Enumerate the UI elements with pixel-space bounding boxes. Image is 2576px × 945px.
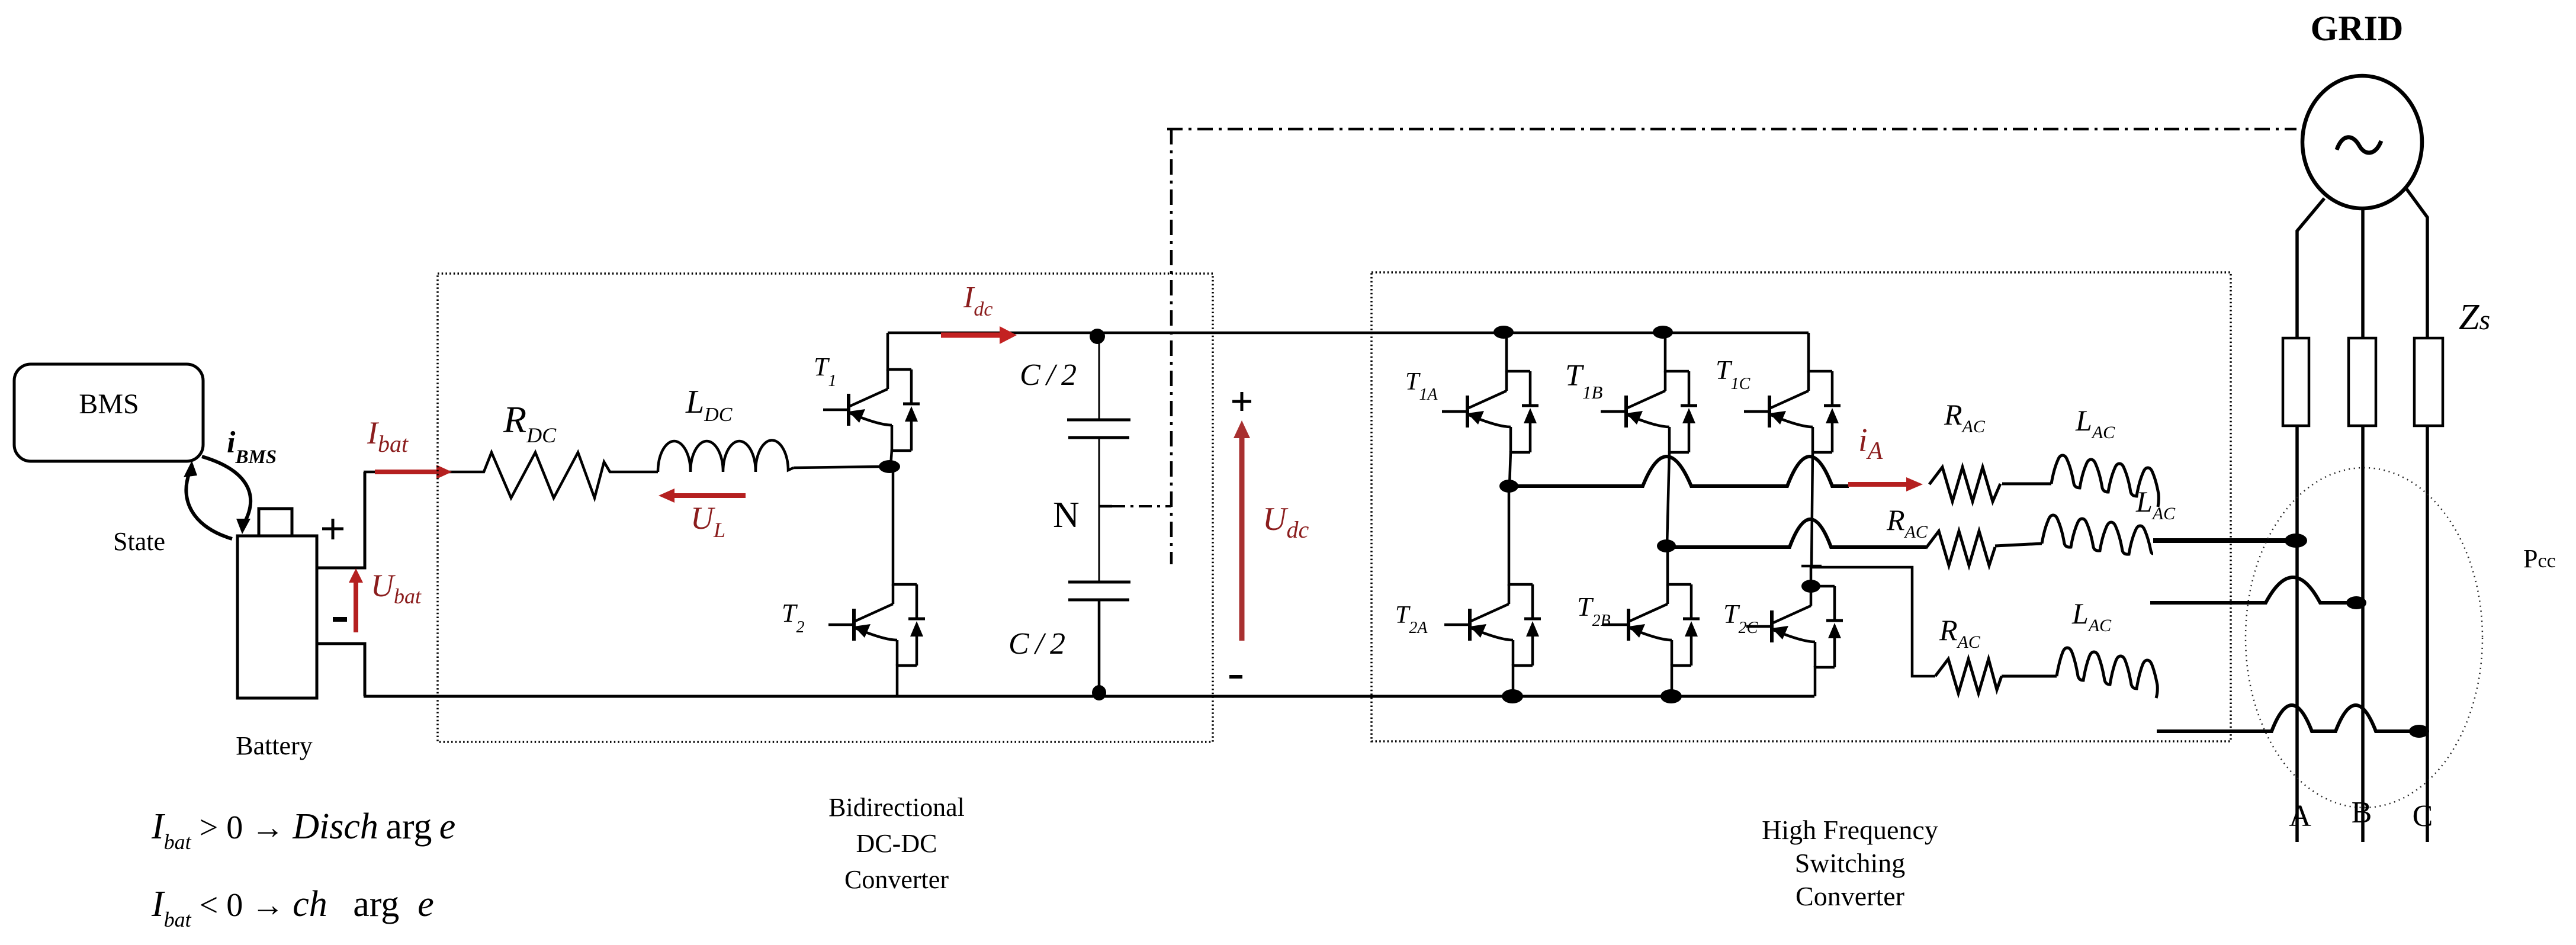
inductor L_AC phase C	[2057, 648, 2157, 698]
grid phase line C	[2406, 188, 2427, 842]
wire R_AC to L_AC phase B	[1995, 544, 2042, 546]
dashed box High Frequency Switching Converter	[1371, 272, 2231, 741]
label minus U_dc	[1229, 675, 1242, 679]
svg-text:LAC: LAC	[2075, 404, 2115, 442]
signal arc battery to BMS (State)	[184, 461, 232, 539]
impedance Zs box phase C	[2414, 338, 2443, 426]
label battery plus	[322, 519, 343, 539]
svg-text:C / 2: C / 2	[1008, 627, 1065, 661]
transistor T2B	[1603, 546, 1700, 696]
svg-text:Switching: Switching	[1795, 848, 1906, 878]
impedance Zs box phase A	[2283, 338, 2309, 426]
resistor R_AC phase C	[1935, 659, 2002, 693]
transistor T2	[828, 467, 925, 696]
svg-text:State: State	[113, 527, 165, 556]
transistor T1C	[1744, 333, 1841, 567]
node N tick	[1099, 505, 1112, 508]
transistor T1A	[1442, 334, 1538, 486]
capacitor C/2 upper	[1067, 336, 1130, 506]
svg-text:Idc: Idc	[963, 281, 993, 320]
transistor T2C	[1746, 566, 1843, 696]
signal arc BMS to battery (i_BMS)	[202, 457, 250, 534]
wire phase output to PCC line C with crossover humps	[2157, 705, 2410, 731]
inductor L_AC phase A	[2051, 455, 2159, 507]
arrow U_L	[659, 488, 746, 503]
wire DC bus battery to R_DC	[364, 471, 476, 474]
wire phase C branch	[1811, 567, 1935, 676]
svg-text:Converter: Converter	[1796, 881, 1904, 911]
transistor T1	[823, 333, 920, 467]
resistor R_AC phase B	[1926, 531, 1995, 565]
arrow U_dc	[1234, 420, 1250, 641]
label battery minus	[333, 617, 347, 622]
grid phase line B	[2361, 208, 2365, 842]
svg-text:T2: T2	[782, 599, 804, 637]
svg-text:LDC: LDC	[685, 384, 733, 426]
grid phase line A	[2297, 198, 2324, 842]
svg-text:RAC: RAC	[1939, 613, 1981, 652]
svg-text:Pcc: Pcc	[2523, 544, 2556, 573]
svg-text:RDC: RDC	[503, 398, 557, 447]
svg-text:C: C	[2413, 799, 2433, 833]
dash-dot vertical reference line	[1170, 129, 1173, 564]
svg-text:T1A: T1A	[1405, 368, 1438, 404]
svg-text:BMS: BMS	[79, 388, 139, 420]
node bottom rail capacitor junction	[1092, 685, 1106, 700]
BMS box	[14, 364, 203, 461]
wire battery plus terminal to DC bus	[317, 472, 365, 568]
svg-text:LAC: LAC	[2071, 597, 2112, 635]
capacitor C/2 lower	[1068, 506, 1130, 696]
wire L_DC to T1-T2 node	[794, 467, 881, 468]
dash-dot horizontal link to GRID	[1167, 128, 2296, 131]
svg-text:T1B: T1B	[1565, 359, 1602, 403]
svg-text:High Frequency: High Frequency	[1762, 815, 1938, 845]
node PCC phase C	[2409, 725, 2429, 738]
node top rail leg B	[1653, 326, 1673, 339]
arrow I_dc	[941, 326, 1017, 344]
dash-dot link N to reference line	[1112, 505, 1171, 507]
svg-text:T1: T1	[814, 352, 836, 390]
node bottom rail leg B	[1660, 689, 1682, 703]
inductor L_DC	[658, 440, 794, 472]
wire R_AC to L_AC phase C	[2002, 675, 2057, 678]
transistor T1B	[1601, 334, 1697, 546]
wire phase output to PCC line A	[2153, 538, 2287, 543]
arrow U_bat	[349, 568, 363, 632]
svg-text:Ibat > 0 → Disch arg e: Ibat > 0 → Disch arg e	[151, 806, 455, 854]
svg-text:iBMS: iBMS	[227, 426, 277, 468]
svg-text:B: B	[2352, 796, 2372, 830]
svg-text:T1C: T1C	[1716, 355, 1750, 393]
wire battery minus terminal to bottom rail	[317, 644, 365, 696]
svg-text:RAC: RAC	[1944, 398, 1986, 436]
svg-text:T2C: T2C	[1723, 599, 1758, 637]
node leg B midpoint	[1657, 539, 1676, 552]
label plus U_dc	[1232, 392, 1251, 411]
svg-text:N: N	[1053, 495, 1080, 535]
node T1-T2 midpoint	[879, 460, 900, 473]
svg-text:Udc: Udc	[1263, 501, 1309, 543]
svg-text:Ubat: Ubat	[371, 568, 422, 608]
dashed box Bidirectional DC-DC Converter	[438, 274, 1213, 742]
AC source grid	[2302, 76, 2422, 208]
svg-text:Ibat < 0 → ch arg e: Ibat < 0 → ch arg e	[151, 884, 434, 931]
resistor R_AC phase A	[1929, 467, 2000, 502]
svg-text:UL: UL	[690, 500, 725, 542]
svg-text:RAC: RAC	[1886, 503, 1928, 542]
svg-text:T2A: T2A	[1395, 602, 1428, 637]
node leg A midpoint	[1499, 480, 1518, 493]
svg-text:T2B: T2B	[1577, 592, 1611, 630]
svg-text:DC-DC: DC-DC	[856, 829, 937, 858]
svg-text:Bidirectional: Bidirectional	[828, 793, 965, 822]
wire phase A output with crossover humps	[1516, 457, 1849, 486]
battery Battery	[237, 509, 317, 698]
node PCC phase A	[2285, 533, 2307, 548]
resistor R_DC	[476, 452, 658, 498]
PCC dotted ellipse	[2246, 468, 2482, 808]
arrow i_A	[1848, 477, 1923, 491]
node top rail leg A	[1493, 326, 1514, 339]
svg-text:Battery: Battery	[236, 731, 313, 760]
svg-text:C / 2: C / 2	[1020, 358, 1077, 392]
svg-text:Converter: Converter	[844, 865, 949, 894]
wire R_AC to L_AC phase A	[2002, 483, 2051, 486]
arrow I_bat	[375, 465, 452, 479]
svg-text:GRID: GRID	[2311, 9, 2404, 48]
node T2C collector junction	[1801, 580, 1820, 593]
wire bottom rail	[364, 695, 1814, 698]
svg-text:Ibat: Ibat	[367, 415, 409, 457]
svg-text:LAC: LAC	[2135, 485, 2176, 523]
svg-text:A: A	[2289, 799, 2311, 833]
node top rail capacitor junction	[1090, 329, 1105, 344]
wire DC top rail	[888, 332, 1809, 335]
label High Frequency Switching Converter	[1762, 815, 1938, 911]
svg-text:iA: iA	[1858, 422, 1883, 465]
transistor T2A	[1444, 486, 1541, 696]
impedance Zs box phase B	[2349, 338, 2376, 426]
node PCC phase B	[2346, 596, 2366, 609]
label Bidirectional DC-DC Converter	[828, 793, 965, 894]
wire phase B output with crossover hump	[1675, 519, 1926, 547]
node bottom rail leg A	[1502, 689, 1523, 703]
svg-text:Zs: Zs	[2459, 297, 2490, 337]
inductor L_AC phase B	[2042, 515, 2153, 554]
wire phase output to PCC line B with crossover hump	[2150, 577, 2347, 603]
